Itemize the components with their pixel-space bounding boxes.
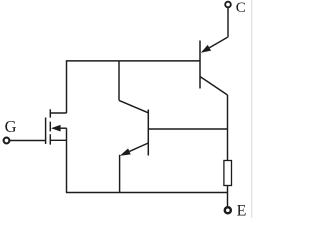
MOSFET Q1 gate bar <box>45 118 47 145</box>
wire right rail upper <box>227 95 229 161</box>
terminal G <box>4 138 10 144</box>
wire C lead <box>227 7 229 37</box>
wire drain riser <box>66 61 68 113</box>
wire gate lead <box>10 140 46 142</box>
MOSFET Q1 drain lead <box>50 112 66 114</box>
svg-text:E: E <box>237 202 247 218</box>
scan edge line <box>251 0 253 218</box>
transistor Q3 (PNP) base bar <box>199 41 201 89</box>
transistor Q2 (NPN) base bar <box>147 110 149 156</box>
wire resistor to E <box>227 186 229 207</box>
MOSFET Q1 body arrow <box>51 125 67 132</box>
terminal C <box>225 2 231 8</box>
transistor Q3 emitter with arrow (to C) <box>201 37 228 53</box>
transistor Q2 collector <box>119 100 148 112</box>
MOSFET Q1 channel bar (dashed, 3 segments) <box>49 109 51 144</box>
svg-text:C: C <box>236 0 246 16</box>
transistor Q2 emitter with arrow <box>120 143 149 156</box>
wire bottom rail <box>66 192 228 194</box>
svg-text:G: G <box>5 117 17 136</box>
wire NPN collector riser <box>118 61 120 101</box>
wire top rail <box>66 60 200 62</box>
wire Q2 emitter drop <box>119 155 121 193</box>
wire Q2 base to right rail <box>148 128 227 130</box>
transistor Q3 collector <box>200 77 228 96</box>
terminal E <box>225 207 231 213</box>
MOSFET Q1 source lead <box>50 139 66 141</box>
wire source to bottom rail <box>66 128 68 192</box>
resistor R1 <box>224 161 232 186</box>
